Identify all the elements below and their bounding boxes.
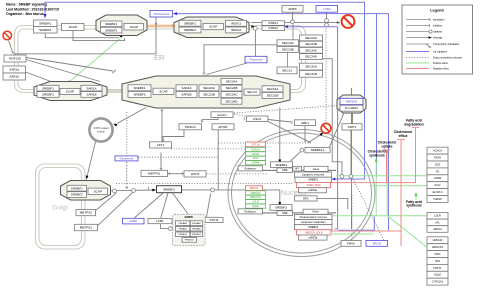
wire SCAP elbow into complex	[73, 31, 125, 41]
tick on cleavage line	[147, 187, 149, 190]
wire LKB1 to AMPK complex	[161, 224, 169, 229]
green vertical gv2	[386, 153, 388, 216]
gene box INSIG2	[226, 27, 247, 33]
svg-text:SAR1A: SAR1A	[181, 86, 192, 90]
gene box Pri-miRNA	[340, 105, 363, 111]
svg-text:SREBF2: SREBF2	[105, 28, 117, 32]
black arrow into complex O1	[120, 33, 123, 37]
green up arrow to Cholesterol synthesis	[375, 158, 378, 162]
catalysis circle on green line	[340, 175, 344, 179]
svg-text:SEC24B: SEC24B	[305, 42, 317, 46]
black cleavage arrow into SREBF1	[152, 189, 156, 192]
svg-text:SREBF1a: SREBF1a	[311, 148, 325, 152]
wire DNA line cluster1	[238, 169, 336, 171]
gene box SP1	[295, 196, 318, 201]
gene box SCAP	[203, 24, 224, 30]
dotted horizontal y143	[219, 142, 312, 144]
wire DNA line cluster2	[238, 212, 336, 214]
gene box PRKAG3	[182, 238, 197, 243]
wire to degradation sign 3	[308, 135, 321, 143]
svg-text:SREBF1: SREBF1	[275, 163, 287, 167]
gene box AMPK	[282, 6, 303, 13]
svg-text:SREBF1: SREBF1	[308, 178, 319, 182]
wire SREBF1/2 elbow into complex	[45, 33, 119, 38]
svg-text:SCAP: SCAP	[159, 89, 167, 93]
blue arrow into SREBF1 gene box	[331, 178, 335, 181]
svg-text:Insulin: Insulin	[218, 113, 227, 117]
gene box SCD	[427, 161, 448, 168]
legend interaction rows	[406, 19, 429, 21]
svg-text:Transcription-Translation: Transcription-Translation	[433, 43, 460, 46]
svg-text:FASN: FASN	[252, 152, 259, 156]
svg-text:INSIG1: INSIG1	[269, 21, 279, 25]
catalysis circle on translocation	[211, 188, 215, 192]
svg-text:SREBF2: SREBF2	[133, 93, 145, 97]
gene box LPL	[427, 219, 448, 226]
green diagonal to ER-exit complex	[71, 38, 122, 81]
svg-text:LXRa: LXRa	[323, 7, 331, 11]
wire cleaved SREBF1 fan to regulators	[135, 193, 164, 218]
gene box ACACA	[427, 147, 448, 154]
svg-text:SEC23A: SEC23A	[203, 86, 216, 90]
gene box SEC23A	[199, 85, 219, 91]
gene box INSIG2	[262, 26, 285, 31]
svg-text:AMPK: AMPK	[288, 7, 298, 11]
gene box SRE	[277, 168, 293, 173]
svg-text:PRKAA1: PRKAA1	[178, 222, 187, 225]
svg-text:NFY: NFY	[295, 168, 300, 171]
svg-text:SREBF2: SREBF2	[308, 225, 319, 229]
green line gh5	[332, 233, 374, 235]
gene box SEC24D	[221, 98, 242, 104]
svg-text:LPL: LPL	[435, 220, 440, 224]
gene box GPAM	[427, 175, 448, 182]
svg-text:degradation: degradation	[404, 122, 423, 126]
svg-text:ER: ER	[154, 53, 165, 62]
gene box NFY	[293, 166, 302, 171]
red line rh3	[331, 230, 402, 232]
gene box GBF1	[295, 120, 316, 126]
svg-text:FASN: FASN	[434, 156, 441, 160]
wire down to Thyroxine box	[254, 30, 256, 56]
svg-text:Exact mechanism unknown: Exact mechanism unknown	[433, 57, 463, 60]
gene box Gene	[304, 166, 328, 171]
wire USO1 diagonal	[268, 122, 311, 143]
svg-text:SEC23A: SEC23A	[282, 41, 295, 45]
blue vertical from MIR33A	[351, 88, 353, 229]
red line rh1	[331, 182, 417, 184]
svg-text:MVD: MVD	[435, 252, 441, 256]
gene box Insulin	[211, 112, 233, 118]
gene box Enhancer	[238, 166, 263, 171]
gene box PMVK	[341, 240, 361, 246]
svg-text:Gene: Gene	[312, 210, 319, 214]
wire Golgi complex cleavage line	[111, 189, 153, 192]
svg-text:LDLR: LDLR	[252, 200, 259, 204]
wire PIK3CA to AKT1	[163, 130, 184, 140]
catalysis circle S1P	[132, 189, 136, 193]
svg-text:LPIN1: LPIN1	[191, 172, 200, 176]
svg-text:SAR1A: SAR1A	[86, 86, 97, 90]
gene box SCAP	[60, 89, 80, 95]
gene box SREBF1	[101, 21, 123, 27]
svg-text:SAR1b: SAR1b	[9, 75, 19, 79]
induced gene SQLE	[246, 204, 266, 208]
wire Insulin to PIK3CA	[202, 117, 218, 120]
gene box HMGCR	[427, 237, 448, 244]
gene box SAR1b	[3, 73, 26, 80]
svg-text:SCAP: SCAP	[209, 25, 217, 29]
dotted Oxysterols right	[139, 156, 219, 158]
degradation sign 2	[342, 15, 355, 28]
wire SEC23 elbow into COPII complex	[204, 45, 277, 73]
svg-text:AKT1: AKT1	[157, 143, 165, 147]
gene box THRSP	[427, 196, 448, 203]
svg-text:synthesis: synthesis	[406, 204, 422, 208]
green line gh3	[371, 185, 427, 187]
gene box SREBF1	[34, 20, 58, 27]
blue arrow into SREBF1 top	[44, 14, 47, 18]
blue edge H3/V3	[289, 27, 337, 229]
wire to free SEC23	[292, 24, 294, 40]
gene box MBTPS2	[76, 209, 96, 215]
svg-text:SEC24D: SEC24D	[305, 55, 318, 59]
gene box Enhancer	[238, 209, 263, 214]
wire SEC23B to SEC13	[287, 52, 289, 67]
svg-text:GBF1: GBF1	[301, 121, 309, 125]
gene box LDLR	[427, 213, 448, 220]
black arrow into nucleus SREBF2	[278, 202, 281, 206]
dotted Insulin to USO1	[234, 114, 246, 116]
green stub	[415, 196, 417, 200]
induced gene HMGCS1	[246, 195, 266, 199]
wire stub into S1P/S2P box	[160, 153, 162, 169]
red T-bar Cholesterol uptake	[383, 149, 391, 151]
svg-text:SCAP: SCAP	[94, 189, 102, 193]
gene box SEC24C	[300, 47, 323, 53]
svg-text:cleavage: cleavage	[433, 37, 443, 40]
svg-text:SEC24B: SEC24B	[226, 86, 238, 90]
gene box SEC24B	[300, 41, 323, 47]
wire COPII complex to vesicle	[117, 108, 146, 124]
svg-text:SEC24A: SEC24A	[226, 80, 239, 84]
svg-text:SEC31A: SEC31A	[305, 65, 318, 69]
degradation sign 3	[321, 123, 331, 133]
svg-text:ACACA: ACACA	[251, 147, 260, 151]
gene box cleaved SREBF1	[157, 186, 182, 193]
green line gh4 to LDLR stack	[332, 215, 427, 217]
gene box SCAP	[88, 188, 108, 194]
svg-text:miR33a: miR33a	[308, 188, 317, 192]
green arrowhead	[69, 80, 73, 84]
svg-text:SEC23B: SEC23B	[203, 93, 215, 97]
wire MTOR stem down to cleavage line	[217, 130, 219, 190]
svg-text:PRKAG2: PRKAG2	[192, 233, 202, 236]
gene box SREBF1	[271, 162, 293, 168]
orange arrowhead	[172, 24, 177, 28]
gene box SAR1a	[3, 66, 26, 73]
svg-text:AMPK: AMPK	[184, 215, 194, 219]
gene box SEC23B	[277, 46, 299, 52]
gene box LPIN1	[184, 171, 206, 177]
gene box SEC24A	[221, 78, 242, 84]
svg-text:SREBF1: SREBF1	[42, 86, 54, 90]
dashed Oxysterols to cleavage	[126, 162, 128, 186]
blue arrow into Cholesterol	[173, 12, 177, 15]
svg-text:FDFT1: FDFT1	[433, 266, 442, 270]
gene box PRKAG2	[190, 232, 202, 237]
svg-text:GK: GK	[436, 169, 440, 173]
svg-text:ACLY: ACLY	[434, 183, 441, 187]
blue edge H1/V2	[45, 2, 365, 179]
complex O6 pri-miRNA MIR33	[337, 95, 366, 113]
svg-text:SREBF1: SREBF1	[105, 22, 117, 26]
gene box SEC23B	[199, 91, 219, 97]
gene box miR33a	[299, 188, 327, 193]
gene box FDFT1	[427, 264, 448, 271]
svg-text:Last Modified : 20101020100715: Last Modified : 20101020100715	[6, 7, 59, 11]
svg-text:Positive effect: Positive effect	[433, 62, 448, 65]
svg-text:SREBF2: SREBF2	[39, 28, 51, 32]
svg-text:Up regulation: Up regulation	[433, 51, 448, 54]
svg-text:SEC31B: SEC31B	[305, 72, 317, 76]
wire vesicle to Golgi complex	[87, 142, 95, 176]
svg-text:PRKAB1: PRKAB1	[178, 228, 187, 231]
svg-text:SREBF1: SREBF1	[39, 21, 51, 25]
gene box Lipoprotein metabolism	[295, 220, 333, 225]
svg-text:SEC23B: SEC23B	[282, 48, 294, 52]
gene box RNF139	[4, 55, 26, 62]
gene box HMGCS1	[427, 244, 448, 251]
blue elbow lower right	[339, 216, 375, 230]
svg-text:INSIG2: INSIG2	[231, 28, 241, 32]
wire MBTPS2 to cleavage	[96, 193, 117, 211]
gene box Lipogenic enzymes	[295, 172, 332, 177]
gene box SAR1A	[176, 85, 197, 91]
svg-text:efflux: efflux	[398, 134, 407, 138]
svg-text:SREBF1: SREBF1	[184, 21, 196, 25]
svg-text:SCAP: SCAP	[69, 25, 77, 29]
induced gene GPAM	[246, 161, 266, 165]
svg-text:catalysis: catalysis	[433, 31, 443, 34]
orange SCAP-SREBP transport arrow	[147, 25, 171, 28]
svg-text:SRE: SRE	[282, 211, 288, 215]
svg-text:PRKAA2: PRKAA2	[192, 222, 201, 225]
svg-text:MBTPS1: MBTPS1	[148, 172, 161, 176]
red vertical rv1	[386, 151, 388, 183]
wire RNF139 to complex	[26, 58, 113, 72]
svg-text:HMGCR: HMGCR	[433, 238, 443, 242]
wire MBTPS1 to cleavage	[98, 192, 133, 226]
induced gene FASN	[246, 152, 266, 156]
wire GBF1 stem down	[304, 126, 306, 143]
gene box SEC24A	[300, 35, 323, 41]
svg-text:Organism : Bos taurus: Organism : Bos taurus	[6, 12, 44, 16]
gene box SEC24D	[300, 54, 323, 60]
wire degradation sign to RNF139	[9, 41, 13, 53]
gene box SREBF1	[179, 20, 201, 26]
black arrow to no-entry 3	[320, 133, 324, 136]
gene box SEC31A	[262, 86, 283, 92]
repressed gene ABCA1	[246, 186, 263, 191]
nucleus double ellipse	[228, 130, 375, 257]
svg-text:ABCA1: ABCA1	[250, 186, 259, 190]
Golgi double rounded rectangle	[36, 164, 86, 249]
complex O5 Golgi SCAP-SREBP	[61, 181, 111, 201]
svg-text:Thyroxine: Thyroxine	[249, 58, 263, 62]
svg-text:PRKAG1: PRKAG1	[178, 233, 188, 236]
gene box CYP51A1	[427, 278, 448, 285]
wire Cholesterol elbow to RNF139	[16, 17, 157, 55]
svg-text:SRE: SRE	[282, 168, 288, 172]
svg-text:Legend: Legend	[430, 9, 444, 13]
svg-text:SEC24A: SEC24A	[305, 36, 318, 40]
svg-text:INSIG1: INSIG1	[231, 21, 241, 25]
gene box FASN	[427, 154, 448, 161]
green up arrow to Fatty acid synthesis	[415, 192, 418, 196]
svg-text:SEC13: SEC13	[282, 69, 292, 73]
gene box SEC13	[277, 67, 297, 74]
gene box IDI1	[427, 258, 448, 265]
svg-text:Lipogenic enzymes: Lipogenic enzymes	[302, 173, 325, 177]
svg-text:SREBF1: SREBF1	[71, 186, 83, 190]
wire inhibition between MBTPS and LPIN1	[168, 173, 184, 175]
svg-text:Lipoprotein metabolism: Lipoprotein metabolism	[301, 221, 326, 224]
svg-text:GPAM: GPAM	[252, 161, 259, 165]
svg-text:THRSP: THRSP	[433, 197, 442, 201]
catalysis circle 2 on green line	[349, 175, 353, 179]
wire miR33 diagonal	[330, 113, 345, 147]
svg-text:MBTPS1: MBTPS1	[80, 226, 93, 230]
svg-text:Oxysterols: Oxysterols	[120, 156, 134, 160]
gray arrow into no-entry	[337, 21, 341, 24]
wire LXRa catalysis	[326, 12, 328, 18]
svg-text:FASN, SCD: FASN, SCD	[307, 183, 321, 187]
gene box SAR1B	[81, 92, 102, 98]
svg-text:PRKAB2: PRKAB2	[192, 228, 201, 231]
svg-text:SAR1B: SAR1B	[181, 93, 191, 97]
svg-text:NR1H3: NR1H3	[373, 242, 382, 245]
wire SEC24 elbow down to mature SREBP	[315, 59, 342, 175]
metabolite Thyroxine	[245, 56, 267, 63]
red T-bar Fatty acid degradation	[412, 127, 420, 129]
dotted LXRa to degradation	[325, 29, 327, 123]
red vertical rv3	[400, 140, 402, 246]
wire SAR1b to ER-exit complex	[26, 72, 64, 86]
gene box PRKAA2	[190, 221, 202, 226]
svg-text:Gene: Gene	[313, 167, 320, 171]
wire COPII complex to nucleus SREBF1	[279, 108, 281, 161]
blue vertical V1	[376, 14, 378, 177]
metabolite cAMP	[123, 218, 145, 224]
gene box SAR1B	[176, 91, 197, 97]
gene box PRKAA1	[176, 221, 190, 226]
ER membrane double rounded rectangle	[15, 26, 306, 93]
svg-text:USO1: USO1	[253, 117, 262, 121]
black arrow into nucleus SREBF1	[278, 160, 281, 164]
complex O2 SCAP-SREBP-INSIG (ER)	[174, 17, 249, 38]
complex O1 SCAP-SREBP (ER)	[96, 15, 147, 36]
gene box PRKAG1	[176, 232, 190, 237]
wire octagon to SIRT1	[352, 113, 354, 124]
svg-text:SEC24C: SEC24C	[225, 93, 238, 97]
gene box SEC24C	[221, 92, 242, 98]
gene box SREBF1	[128, 85, 151, 91]
svg-text:SREBF2: SREBF2	[71, 193, 83, 197]
gene box SAR1A	[81, 85, 102, 91]
induced gene HMGCR	[246, 191, 266, 195]
blue edge H2/V4	[177, 14, 389, 231]
wire SCAP complex to proteasomal degradation	[251, 22, 337, 24]
svg-text:SEC13: SEC13	[247, 90, 257, 94]
svg-text:SP1: SP1	[303, 197, 309, 201]
red vertical rv2	[415, 128, 417, 182]
svg-text:MTOR: MTOR	[218, 125, 228, 129]
gene box SEC31B	[300, 70, 323, 77]
complex O4 ER-exit SCAP-SREBP-SAR1	[34, 82, 107, 101]
gene box INSIG1	[262, 21, 285, 26]
gene box SEC31A	[300, 63, 323, 70]
rna MIR33A	[340, 98, 363, 104]
gene box LXRa (rna)	[316, 6, 338, 13]
svg-text:synthesis: synthesis	[369, 153, 385, 157]
svg-text:Pri-miRNA: Pri-miRNA	[345, 106, 358, 110]
svg-text:SQLE: SQLE	[434, 273, 441, 277]
gene box SIRT1	[342, 124, 362, 130]
svg-text:cAMP: cAMP	[129, 219, 137, 223]
metabolite Oxysterols	[115, 156, 138, 161]
induced gene SCD	[246, 156, 266, 160]
open arrow onto cleavage line	[126, 187, 128, 189]
svg-text:SCD: SCD	[253, 156, 259, 160]
gene box ELOVL6	[427, 189, 448, 196]
gene box USO1	[247, 116, 269, 122]
wire Thyroxine to COPII complex	[207, 63, 248, 75]
svg-text:Enhancer: Enhancer	[245, 166, 256, 170]
induced gene LDLR	[246, 200, 266, 204]
svg-text:PRKAG3: PRKAG3	[185, 239, 195, 242]
svg-text:miR33a: miR33a	[308, 236, 317, 240]
dotted into nucleus	[116, 183, 294, 185]
dotted Insulin to miR33	[234, 106, 337, 114]
gene box SREBF2	[67, 192, 87, 198]
green up arrow to Cholesterol uptake	[386, 149, 389, 153]
green diagonal to bottom stack	[387, 216, 428, 248]
gene box SEC23A	[277, 40, 299, 46]
dotted to metabolite box	[353, 179, 384, 241]
svg-text:STK11: STK11	[209, 218, 219, 222]
dotted vertical into Oxysterols	[126, 112, 128, 155]
svg-text:PMVK: PMVK	[347, 241, 355, 245]
svg-text:SREBF2: SREBF2	[184, 28, 196, 32]
svg-text:Cholesterol: Cholesterol	[153, 12, 169, 16]
gene box INSIG1	[226, 20, 247, 26]
catalysis circle below membrane exit	[254, 27, 258, 31]
wire AKT1 up to COPII complex	[161, 111, 163, 142]
svg-text:HMGCR: HMGCR	[251, 191, 261, 195]
wire AMPK catalysis	[292, 12, 294, 20]
svg-text:SEC31B: SEC31B	[267, 94, 279, 98]
wire USO1 to GBF1 inhibition	[268, 120, 291, 123]
gene box MBTPS1	[141, 170, 168, 176]
degradation sign 1	[3, 31, 12, 40]
gene box ACLY	[427, 182, 448, 189]
tick at line end	[113, 70, 116, 73]
svg-text:LDLR: LDLR	[434, 214, 441, 218]
wire RNF139 second line	[26, 60, 100, 82]
svg-text:Golgi: Golgi	[52, 205, 68, 212]
svg-text:GPAM: GPAM	[434, 176, 441, 180]
